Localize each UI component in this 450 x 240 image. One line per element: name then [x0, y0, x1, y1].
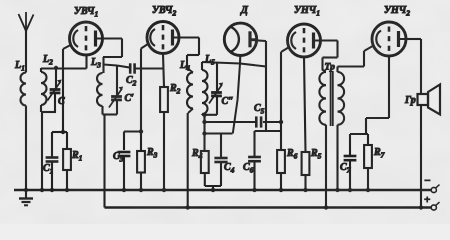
svg-text:C′: C′: [125, 93, 135, 104]
svg-text:Тр: Тр: [325, 63, 336, 73]
svg-text:УНЧ1: УНЧ1: [294, 5, 320, 18]
svg-text:Гр: Гр: [404, 95, 416, 106]
svg-text:+: +: [424, 194, 430, 206]
svg-text:Д: Д: [240, 5, 249, 16]
svg-text:−: −: [424, 175, 431, 187]
svg-text:C″: C″: [222, 96, 234, 107]
svg-text:C: C: [58, 96, 65, 107]
